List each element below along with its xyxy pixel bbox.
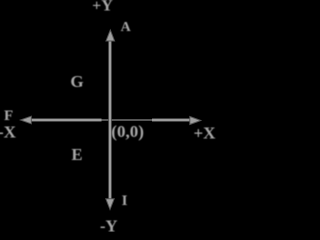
svg-text:I: I — [122, 193, 128, 209]
svg-text:-Y: -Y — [100, 217, 117, 233]
svg-text:(0,0): (0,0) — [111, 122, 144, 141]
svg-text:G: G — [70, 72, 83, 91]
svg-text:-X: -X — [0, 123, 17, 142]
svg-text:A: A — [121, 20, 132, 35]
svg-text:+X: +X — [194, 124, 217, 143]
svg-text:F: F — [4, 108, 13, 124]
svg-text:+Y: +Y — [92, 0, 113, 14]
svg-text:E: E — [71, 145, 82, 164]
